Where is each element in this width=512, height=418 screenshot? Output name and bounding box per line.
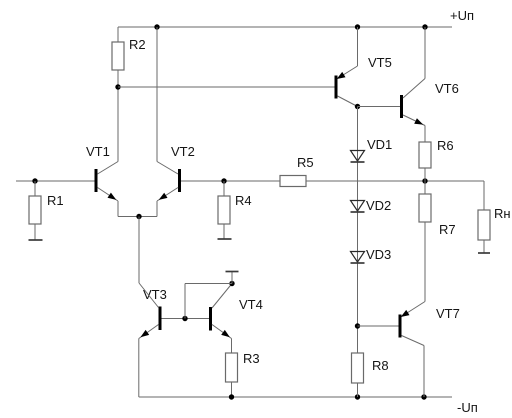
wire VT4 collector diagonal <box>212 284 232 309</box>
wire Rn bottom <box>483 240 485 253</box>
ground R1 <box>29 239 43 241</box>
wire VT4 emitter diagonal <box>212 325 232 339</box>
wire R2 bottom to VT1 collector <box>117 70 119 162</box>
node top rail junction VT2 collector <box>154 24 159 29</box>
wire VT7 collector diagonal <box>402 336 425 346</box>
transistor VT3 <box>159 307 162 331</box>
node bottom rail R3 <box>229 394 234 399</box>
wire diode chain top <box>357 107 359 354</box>
resistor R5 <box>280 176 306 187</box>
wire output drop to Rn <box>483 181 485 210</box>
wire VT2 emitter down <box>156 201 158 217</box>
node top rail junction VT5 <box>355 24 360 29</box>
resistor R6 <box>419 142 431 168</box>
wire R5 right to output <box>306 180 484 182</box>
wire VT1 emitter down <box>117 201 119 217</box>
resistor Rn load <box>478 210 490 240</box>
wire VT3 emitter down <box>138 339 140 398</box>
resistor R2 <box>112 42 124 70</box>
wire VT6 emitter down <box>424 126 426 143</box>
svg-text:R3: R3 <box>243 351 260 366</box>
ground R4 <box>218 238 232 240</box>
wire VT6 emitter diagonal <box>403 115 425 126</box>
diode VD2 <box>351 201 365 212</box>
wire input left <box>16 180 95 182</box>
wire VT2 base to R5 <box>181 180 280 182</box>
node VT5 collector VT6 base <box>355 104 360 109</box>
terminal T bar <box>226 271 239 273</box>
svg-text:R4: R4 <box>235 193 252 208</box>
node top rail junction VT6 <box>422 24 427 29</box>
svg-text:-Uп: -Uп <box>457 400 478 415</box>
svg-text:VT4: VT4 <box>239 297 263 312</box>
wire R7 bottom to VT7 emitter <box>424 222 426 302</box>
wire VT2 collector diagonal <box>157 162 178 175</box>
wire VT1 emitter diagonal <box>98 188 119 202</box>
resistor R4 <box>218 196 230 224</box>
transistor VT2 <box>178 169 181 192</box>
wire VT3 collector diagonal <box>139 283 159 308</box>
svg-text:VT6: VT6 <box>435 81 459 96</box>
svg-text:VT7: VT7 <box>436 306 460 321</box>
svg-text:R8: R8 <box>372 358 389 373</box>
wire collector base loop left <box>184 284 186 319</box>
svg-text:VT2: VT2 <box>171 144 195 159</box>
svg-text:Rн: Rн <box>494 206 511 221</box>
wire VT7 collector down <box>423 346 425 398</box>
wire VT5 collector diagonal <box>338 96 358 107</box>
svg-text:VT5: VT5 <box>368 55 392 70</box>
diode VD1 <box>351 151 365 162</box>
node bottom rail VT7 collector <box>421 394 426 399</box>
svg-text:VD2: VD2 <box>366 198 391 213</box>
node VT4 collector junction <box>229 281 234 286</box>
diode VD3 <box>351 252 365 263</box>
wire R4 bottom <box>223 224 225 239</box>
wire R7 top <box>424 181 426 194</box>
wire R2 junction to VT5 base <box>118 86 335 88</box>
svg-text:+Uп: +Uп <box>450 8 474 23</box>
svg-text:VD3: VD3 <box>366 247 391 262</box>
wire common emitter horizontal <box>118 216 157 218</box>
wire top rail +U <box>118 26 452 28</box>
wire VT3 emitter diagonal <box>139 325 159 339</box>
wire R4 top <box>223 181 225 196</box>
wire R2 top <box>117 27 119 42</box>
resistor R7 <box>419 194 431 222</box>
wire R1 top <box>34 181 36 196</box>
wire R3 bottom <box>231 382 233 397</box>
svg-text:R6: R6 <box>437 138 454 153</box>
node VT3 VT4 base junction <box>182 316 187 321</box>
wire VT2 emitter diagonal <box>157 188 178 202</box>
wire VT2 collector vertical <box>156 27 158 162</box>
node bottom rail R8 <box>355 394 360 399</box>
wire x139 to VT3 <box>138 217 140 284</box>
transistor VT7 <box>399 315 402 338</box>
node R4 junction <box>221 178 226 183</box>
resistor R3 <box>226 353 238 382</box>
wire VT6 collector diagonal <box>403 79 425 99</box>
wire VT1 collector diagonal <box>98 162 119 175</box>
transistor VT1 <box>95 169 98 192</box>
transistor VT5 <box>335 76 338 99</box>
wire R8 bottom <box>357 383 359 397</box>
resistor R8 <box>352 353 364 383</box>
wire VT7 base <box>358 325 399 327</box>
wire collector base loop top <box>185 283 232 285</box>
ground Rn <box>478 252 490 254</box>
wire VT6 base <box>358 106 401 108</box>
node R6 R7 junction <box>422 178 427 183</box>
svg-text:VD1: VD1 <box>367 137 392 152</box>
svg-text:VT1: VT1 <box>86 144 110 159</box>
svg-text:R2: R2 <box>129 37 146 52</box>
resistor R1 <box>29 196 41 224</box>
transistor VT6 <box>400 95 403 118</box>
svg-text:R5: R5 <box>297 155 314 170</box>
wire VT3 base <box>162 318 210 320</box>
transistor VT4 <box>209 307 212 331</box>
node R1 junction <box>32 178 37 183</box>
wire bottom rail -U <box>139 396 452 398</box>
svg-text:R1: R1 <box>47 193 64 208</box>
svg-text:R7: R7 <box>439 222 456 237</box>
wire VT6 collector up <box>424 27 426 79</box>
wire VT4 emitter down <box>231 339 233 354</box>
wire VT7 emitter diagonal <box>402 302 426 317</box>
node common emitter <box>136 214 141 219</box>
wire VT4 collector stem up <box>231 272 233 284</box>
wire VT5 emitter up <box>357 27 359 66</box>
node R2 bottom junction <box>115 84 120 89</box>
svg-text:VT3: VT3 <box>143 287 167 302</box>
node VT7 base junction <box>355 323 360 328</box>
wire R1 bottom <box>34 224 36 240</box>
wire R6 bottom <box>424 168 426 181</box>
wire VT5 emitter diagonal <box>338 66 358 79</box>
